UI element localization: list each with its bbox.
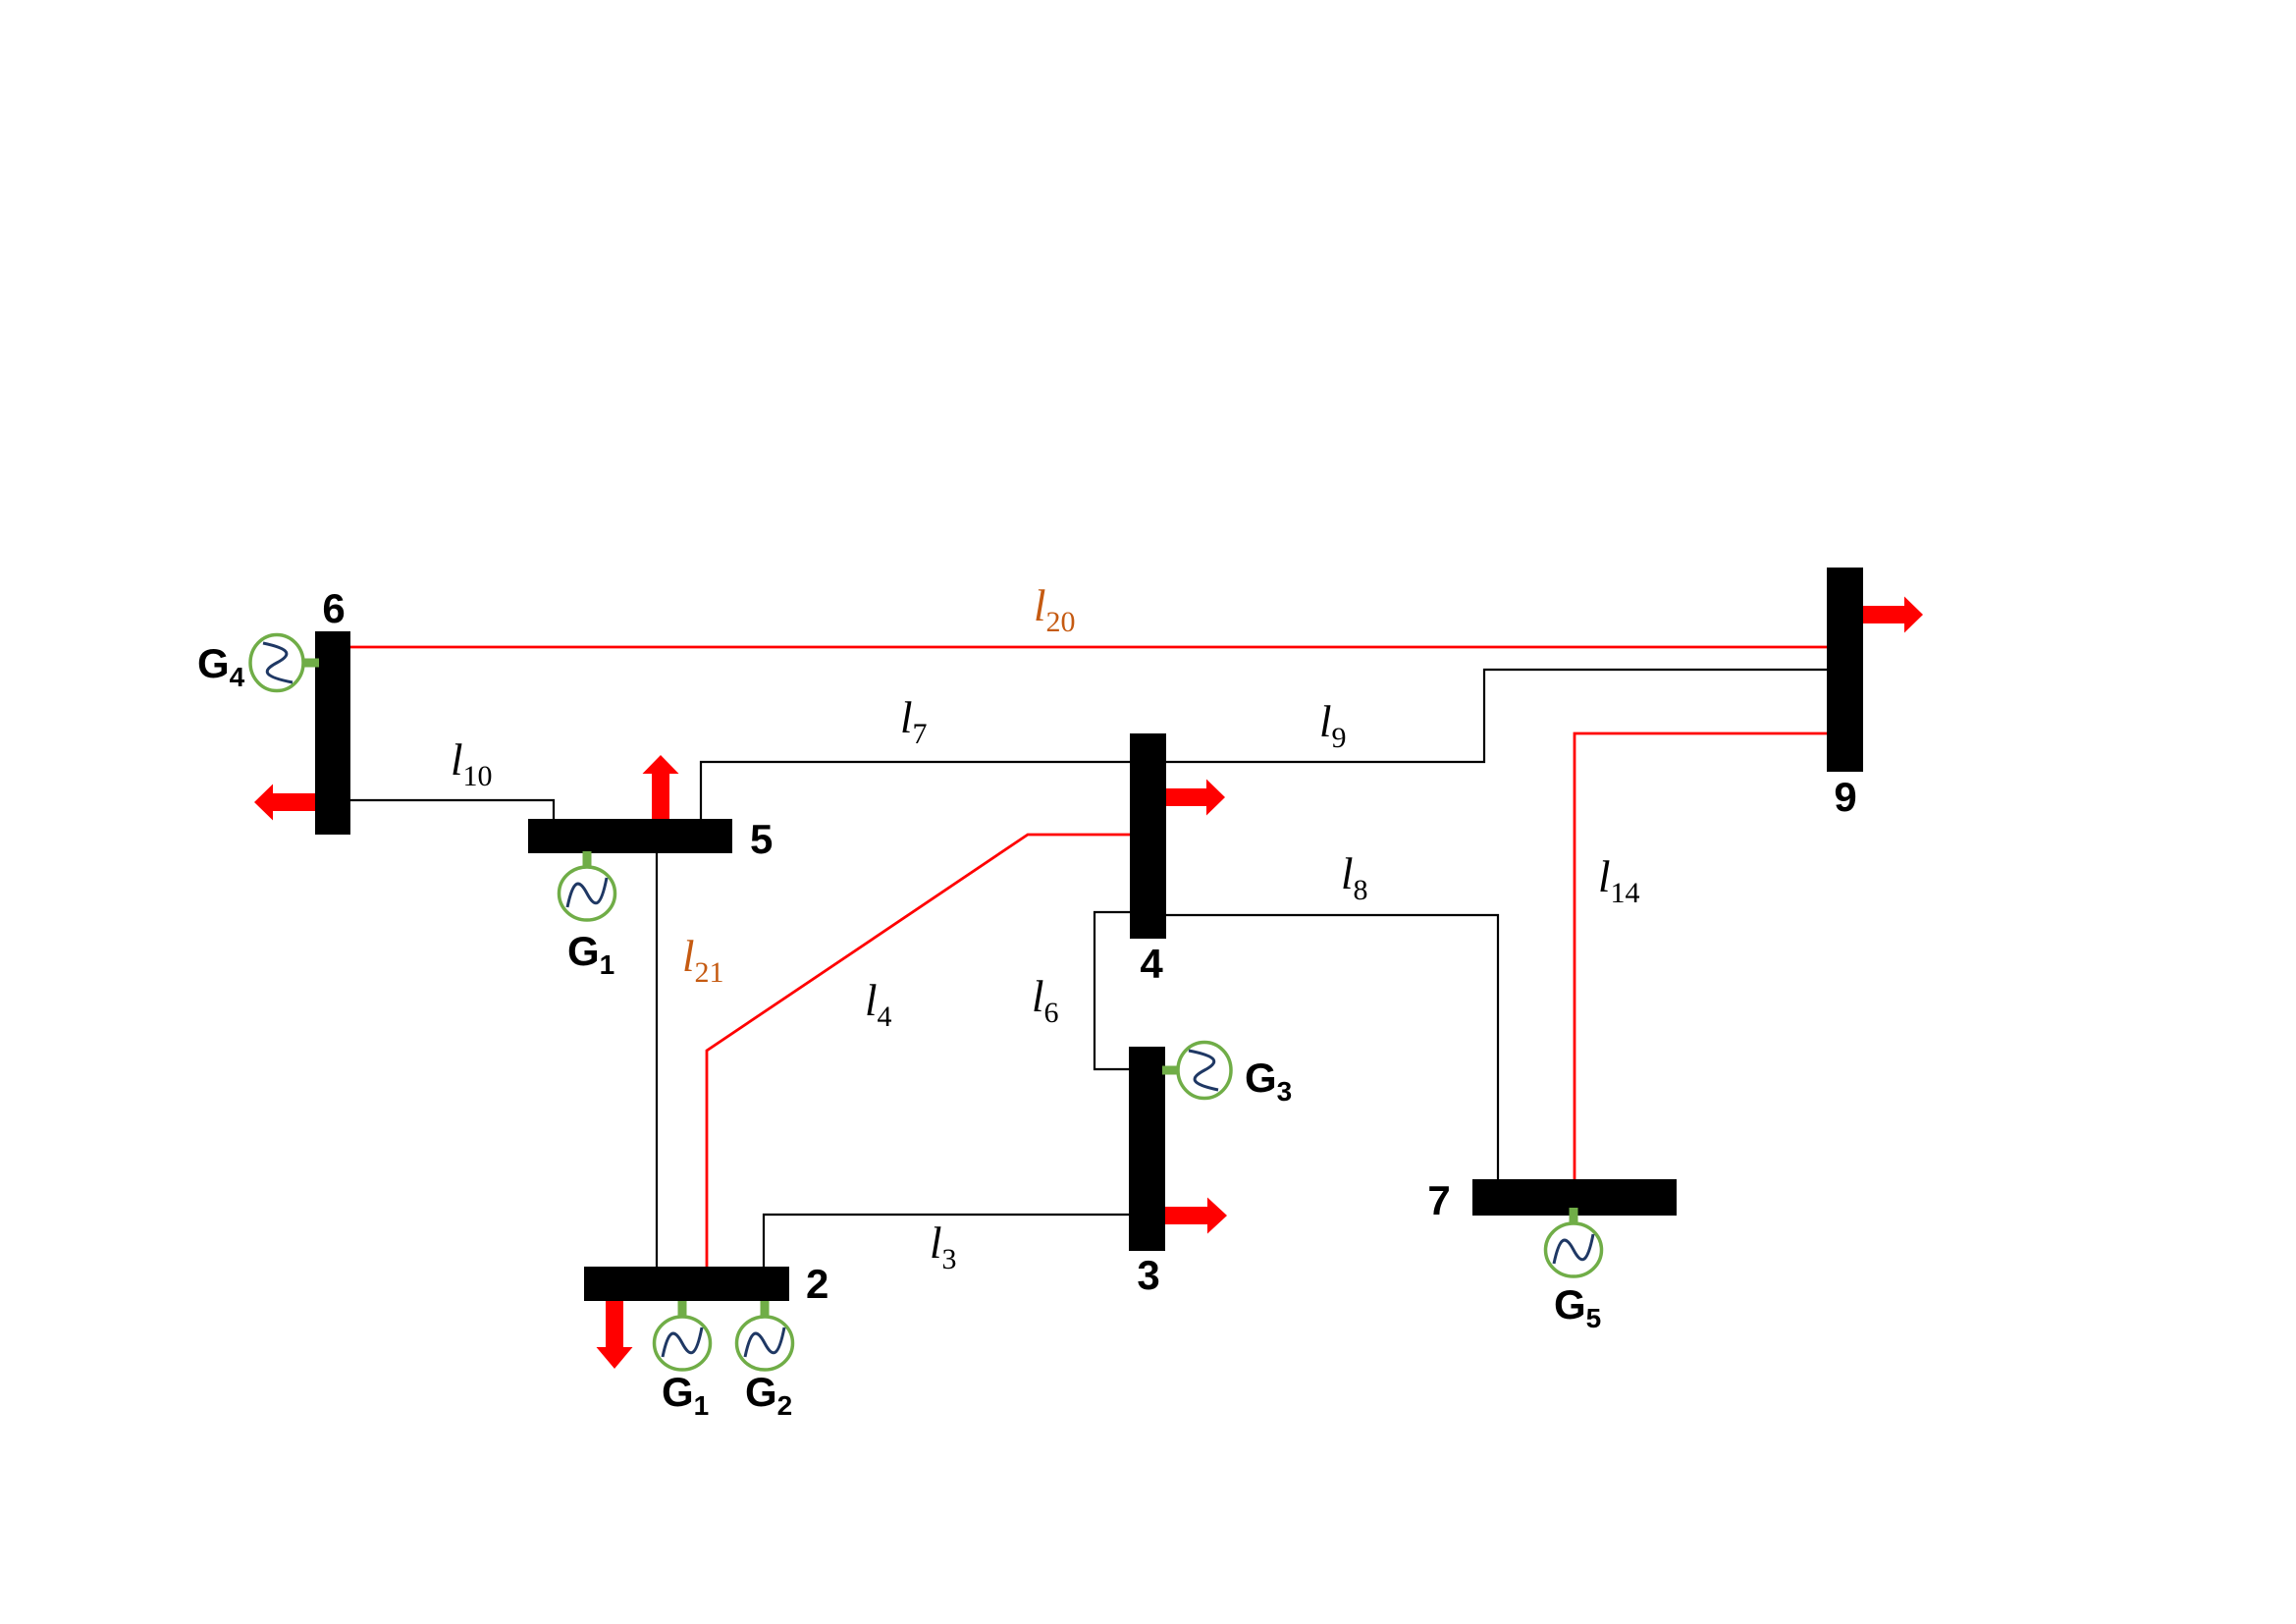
generator G5 at bus 7 <box>1546 1208 1602 1276</box>
svg-text:4: 4 <box>1140 941 1163 987</box>
generator G2 at bus 2 <box>737 1301 793 1370</box>
wire l21 bus5-bus2 <box>656 853 658 1267</box>
svg-text:2: 2 <box>806 1261 828 1307</box>
svg-text:7: 7 <box>1427 1177 1450 1223</box>
bus 5 <box>528 819 732 853</box>
generator G4 at bus 6 <box>250 635 319 691</box>
load arrow bus 6 <box>254 785 315 821</box>
wire l20 bus6-bus9 (red) <box>350 646 1827 649</box>
generator G1 at bus 2 <box>655 1301 711 1370</box>
bus 3 <box>1129 1047 1165 1251</box>
bus 4 <box>1130 733 1166 939</box>
svg-text:5: 5 <box>750 816 773 862</box>
bus 7 <box>1472 1179 1677 1216</box>
load arrow bus 4 <box>1166 780 1225 816</box>
wire l3 bus2-bus3 <box>764 1215 1129 1267</box>
svg-text:6: 6 <box>322 585 345 631</box>
wire l4 bus2-bus4 (red) <box>707 835 1130 1267</box>
load arrow bus 2 <box>597 1301 633 1369</box>
svg-text:9: 9 <box>1834 774 1856 820</box>
wire l14 bus7-bus9 (red) <box>1575 733 1827 1179</box>
load arrow bus 5 <box>643 755 679 819</box>
generator G3 at bus 3 <box>1162 1043 1231 1099</box>
wire l8 bus4-bus7 <box>1166 915 1498 1179</box>
load arrow bus 3 <box>1165 1198 1227 1234</box>
wire l10 bus6-bus5 <box>350 800 554 819</box>
wire l6 bus4-bus3 <box>1095 912 1130 1069</box>
bus 6 <box>315 631 350 835</box>
svg-text:3: 3 <box>1137 1252 1159 1298</box>
bus 9 <box>1827 568 1863 772</box>
bus 2 <box>584 1267 789 1301</box>
generator G1 at bus 5 <box>560 851 615 920</box>
wire l9 bus4-bus9 <box>1166 670 1827 762</box>
wire l7 bus5-bus4 <box>701 762 1130 819</box>
load arrow bus 9 <box>1863 597 1923 633</box>
